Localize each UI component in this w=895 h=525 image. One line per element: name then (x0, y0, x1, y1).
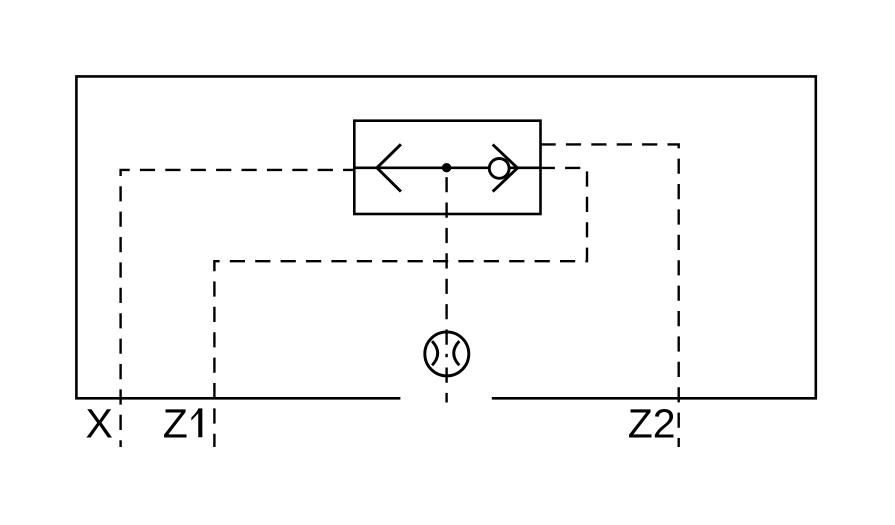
drain line: center vertical dashed, upper part (445, 168, 447, 354)
drain line: center vertical dashed, lower part (445, 354, 447, 403)
check ball (489, 159, 509, 179)
check seat left (arrow) (377, 144, 401, 191)
orifice circle (425, 332, 469, 376)
valve centerline (354, 167, 540, 170)
svg-text:X: X (86, 401, 113, 447)
pilot line Z1 (dashed) (214, 168, 587, 447)
orifice right arc (454, 341, 460, 365)
svg-text:Z: Z (628, 401, 653, 447)
pilot line Z2 (dashed) (541, 144, 679, 447)
svg-text:2: 2 (653, 401, 676, 447)
check seat right (493, 145, 518, 192)
junction dot (442, 163, 451, 172)
svg-text:Z: Z (163, 401, 188, 447)
label Z1: digit 1 (custom glyph, no foot serif) (191, 408, 202, 437)
pilot line X (dashed) (121, 170, 355, 447)
valve body box (354, 121, 540, 214)
orifice left arc (432, 341, 438, 365)
manifold enclosure border with bottom port gap (76, 76, 815, 398)
